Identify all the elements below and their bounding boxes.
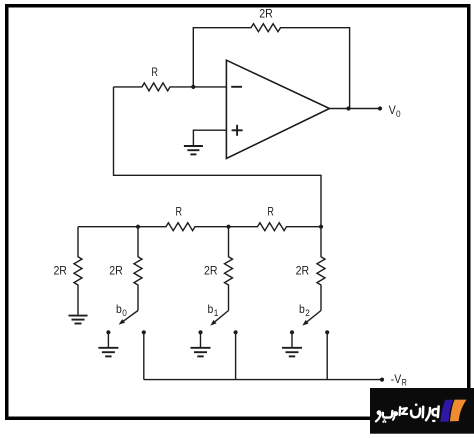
- svg-text:V: V: [389, 103, 396, 117]
- svg-text:0: 0: [122, 308, 127, 318]
- svg-text:2R: 2R: [109, 264, 123, 278]
- svg-text:2R: 2R: [296, 264, 310, 278]
- svg-text:0: 0: [396, 109, 401, 119]
- svg-text:2: 2: [305, 308, 310, 318]
- svg-text:R: R: [402, 377, 408, 387]
- svg-text:b: b: [116, 302, 122, 316]
- svg-text:b: b: [299, 302, 305, 316]
- svg-text:1: 1: [214, 308, 219, 318]
- svg-text:R: R: [175, 204, 182, 218]
- svg-text:2R: 2R: [204, 264, 218, 278]
- svg-text:2R: 2R: [53, 264, 67, 278]
- svg-text:b: b: [208, 302, 214, 316]
- svg-text:R: R: [267, 204, 274, 218]
- svg-text:R: R: [151, 65, 158, 79]
- svg-text:-V: -V: [391, 372, 402, 386]
- svg-text:2R: 2R: [259, 6, 273, 20]
